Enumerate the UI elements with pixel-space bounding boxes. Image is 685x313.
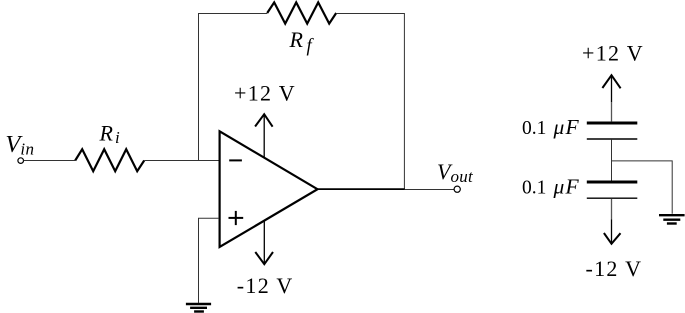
label +12 V (op-amp) [234, 81, 296, 106]
wire C2 to -12V arrow [611, 199, 613, 220]
op-amp non-inverting input plus sign [229, 211, 244, 225]
wire Ri to op-amp inverting input [144, 160, 219, 162]
svg-text:-12 V: -12 V [586, 256, 643, 281]
svg-text:μF: μF [553, 115, 580, 139]
supply arrow -12V (decoupling) [604, 220, 621, 244]
wire Vin to Ri [24, 160, 76, 162]
wire feedback left vertical [199, 14, 268, 161]
svg-text:-12 V: -12 V [237, 273, 294, 298]
ground (op-amp non-inverting input) [186, 304, 211, 312]
label +12 V (supply rail) [582, 40, 644, 65]
wire midpoint junction to right ground [612, 161, 673, 214]
label -12 V (supply rail) [586, 256, 643, 281]
supply arrow +12V (decoupling) [602, 75, 620, 102]
wire junction to Vout terminal [405, 189, 454, 191]
ground (decoupling midpoint) [659, 215, 685, 223]
label C1 0.1 uF [522, 115, 580, 139]
svg-text:+12 V: +12 V [234, 81, 296, 106]
supply arrow +12V on op-amp [255, 114, 273, 157]
wire C1 to C2 [611, 140, 613, 181]
capacitor C2 0.1uF [587, 182, 638, 198]
label -12 V (op-amp) [237, 273, 294, 298]
label Rf [289, 27, 315, 56]
wire Rf to right vertical [336, 14, 404, 190]
capacitor C1 0.1uF [587, 123, 638, 139]
op-amp inverting input minus sign [229, 159, 242, 161]
node Vout label [437, 159, 474, 186]
wire +12V arrow to capacitor C1 [611, 102, 613, 121]
wire op-amp output to junction [318, 188, 405, 190]
output terminal Vout [454, 186, 460, 192]
node Vin label [5, 131, 34, 159]
input terminal Vin [18, 158, 24, 164]
svg-text:0.1: 0.1 [522, 178, 546, 199]
supply arrow -12V on op-amp [255, 221, 273, 265]
label C2 0.1 uF [522, 175, 580, 199]
resistor Ri [75, 149, 144, 171]
op-amp U1 triangle [220, 131, 318, 247]
resistor Rf [267, 2, 336, 23]
wire non-inverting input to ground [199, 218, 220, 303]
svg-text:+12 V: +12 V [582, 40, 644, 65]
svg-text:0.1: 0.1 [522, 118, 546, 139]
label Ri [99, 121, 120, 147]
svg-text:μF: μF [553, 175, 580, 199]
